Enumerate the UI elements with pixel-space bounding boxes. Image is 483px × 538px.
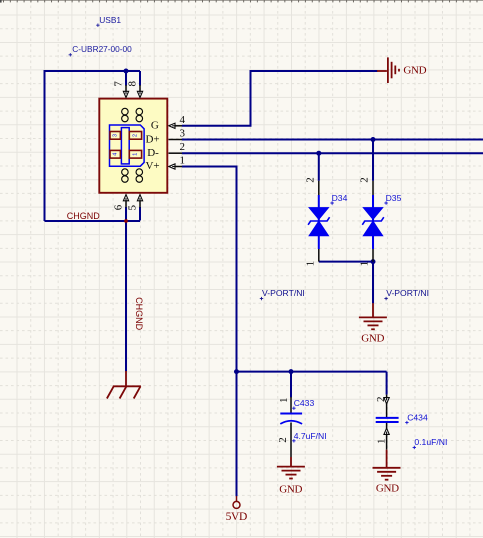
C434 designator anchor cross (405, 421, 408, 424)
capacitor C433 plates (polarized) (280, 414, 302, 424)
C434 value anchor cross (413, 446, 416, 449)
wire C434 branch drop (386, 372, 388, 395)
capacitor C433 pin 1 (top) (278, 397, 291, 413)
junction at pins 7/8 tap (124, 69, 129, 74)
svg-text:GND: GND (361, 332, 384, 344)
wire top loop horizontal (CHGND to pins 7/8) (45, 70, 141, 72)
svg-text:1: 1 (375, 438, 387, 444)
chassis ground symbol (107, 371, 141, 399)
USB1 pin 8 (127, 80, 143, 97)
wire pin7 stub (125, 71, 127, 86)
USB1 shield hole circles top-left (122, 108, 128, 121)
svg-text:C433: C433 (294, 398, 315, 408)
svg-text:2: 2 (375, 396, 387, 402)
svg-text:4.7uF/NI: 4.7uF/NI (294, 431, 327, 441)
svg-text:V-PORT/NI: V-PORT/NI (386, 288, 429, 298)
wire D35 top connection (372, 140, 374, 181)
svg-text:CHGND: CHGND (134, 297, 144, 330)
USB1 shield hole circles bottom-left (122, 169, 128, 182)
capacitor C434 pin 2 (top, with arrow) (375, 395, 389, 418)
power port 5VD circle (233, 496, 240, 508)
junction diode bottoms to GND (371, 259, 376, 264)
diode D35 pin 1 (bottom) (359, 249, 374, 266)
svg-text:C-UBR27-00-00: C-UBR27-00-00 (72, 44, 132, 54)
svg-text:6: 6 (112, 204, 124, 210)
V-PORT/NI right anchor cross (384, 297, 387, 300)
USB1 pin 3 (169, 128, 186, 140)
C433 value anchor cross (292, 439, 295, 442)
svg-text:CHGND: CHGND (67, 211, 100, 221)
svg-text:1: 1 (278, 397, 290, 403)
svg-text:GND: GND (279, 484, 302, 496)
svg-text:D34: D34 (332, 193, 348, 203)
wire pin4 G to top GND (182, 71, 378, 126)
wire D35 bottom to GND (372, 262, 374, 304)
C433 designator anchor cross (292, 407, 295, 410)
diode D34 body (bidirectional TVS) (308, 195, 330, 249)
power port GND (under diodes) (359, 303, 387, 329)
red manual junction at CHGND loop (124, 219, 128, 223)
svg-text:5VD: 5VD (226, 511, 247, 523)
power port GND (under C434) (373, 450, 401, 480)
wire C433 branch drop (290, 372, 292, 398)
diode D35 pin 2 (top) (359, 177, 373, 195)
svg-text:1: 1 (359, 261, 371, 267)
svg-text:0.1uF/NI: 0.1uF/NI (414, 437, 447, 447)
svg-text:4: 4 (180, 114, 186, 126)
USB1 connector tongue bar (121, 128, 129, 164)
wire pin8 stub (139, 71, 141, 86)
wire D+ net (pin 3) (182, 139, 483, 141)
USB1 pin 6 (112, 195, 128, 211)
USB1 designator anchor cross (96, 24, 99, 27)
capacitor C433 pin 2 (bottom) (277, 423, 291, 458)
USB1 pin 2 (169, 141, 186, 153)
junction C433 tap (289, 369, 294, 374)
capacitor C434 pin 1 (bottom, with arrow) (375, 423, 389, 450)
wire pin5 stub (139, 207, 141, 221)
sheet top border line (0, 0, 483, 1)
diode D34 pin 1 (bottom) (304, 249, 319, 266)
svg-text:3: 3 (112, 134, 118, 137)
svg-text:G: G (151, 120, 159, 132)
svg-text:4: 4 (112, 153, 118, 156)
svg-text:D35: D35 (386, 193, 402, 203)
USB1 pin 1 (169, 155, 185, 170)
svg-text:GND: GND (403, 65, 426, 77)
USB1 shield hole circles top-right (136, 108, 143, 121)
svg-text:8: 8 (127, 80, 139, 86)
svg-text:C434: C434 (407, 413, 428, 423)
D35 designator anchor cross (384, 201, 387, 204)
wire diode bottoms horizontal (319, 261, 373, 263)
svg-text:GND: GND (376, 483, 399, 495)
svg-text:1: 1 (180, 155, 186, 167)
V-PORT/NI left anchor cross (260, 297, 263, 300)
diode D34 pin 2 (top) (304, 177, 318, 195)
wire pin6 stub (125, 207, 127, 221)
svg-text:D+: D+ (145, 133, 159, 145)
junction D34 on D- net (316, 151, 321, 156)
svg-text:2: 2 (304, 177, 316, 183)
USB1 pad 2 (top-right) (129, 132, 141, 140)
wire CHGND down to chassis ground (125, 221, 127, 371)
svg-text:2: 2 (359, 177, 371, 183)
USB1 pin 4 (169, 114, 186, 129)
USB1 shield hole circles bottom-right (136, 169, 143, 182)
D34 designator anchor cross (330, 201, 333, 204)
capacitor C434 plates (376, 418, 399, 422)
USB1 pad 3 (top-left) (110, 132, 120, 140)
USB1 pad 4 (bottom-left) (110, 150, 120, 158)
USB1 pin 5 (127, 195, 143, 211)
power port GND (under C433) (277, 457, 305, 479)
USB1 pad 1 (bottom-right) (129, 150, 141, 158)
svg-text:V-PORT/NI: V-PORT/NI (262, 288, 305, 298)
diode D35 body (bidirectional TVS) (362, 195, 384, 249)
wire bottom loop horizontal (CHGND net) (45, 220, 141, 222)
wire D34 top connection (318, 153, 320, 181)
power port GND (top right) (377, 57, 399, 83)
svg-text:1: 1 (132, 153, 138, 156)
svg-text:2: 2 (180, 141, 186, 153)
USB1 connector outline (110, 125, 145, 166)
svg-text:7: 7 (113, 81, 125, 87)
junction 5VD rail corner (234, 369, 239, 374)
svg-text:5: 5 (127, 204, 139, 210)
wire pin1 V+ down to 5VD (182, 167, 237, 497)
wire D- net (pin 2) (182, 152, 483, 154)
connector USB1 body (99, 99, 167, 193)
svg-text:V+: V+ (145, 160, 159, 172)
svg-text:USB1: USB1 (99, 15, 121, 25)
svg-text:3: 3 (180, 128, 186, 140)
svg-text:1: 1 (304, 261, 316, 267)
wire left loop vertical (44, 70, 46, 221)
USB1 pin 7 (113, 81, 129, 98)
wire bottom horizontal to capacitors (237, 371, 387, 373)
svg-text:2: 2 (132, 134, 138, 137)
svg-text:D-: D- (147, 147, 159, 159)
junction D35 on D+ net (371, 137, 376, 142)
sheet border tick marks (4, 0, 477, 2)
USB1 comment anchor cross (69, 53, 72, 56)
svg-text:2: 2 (277, 437, 289, 443)
